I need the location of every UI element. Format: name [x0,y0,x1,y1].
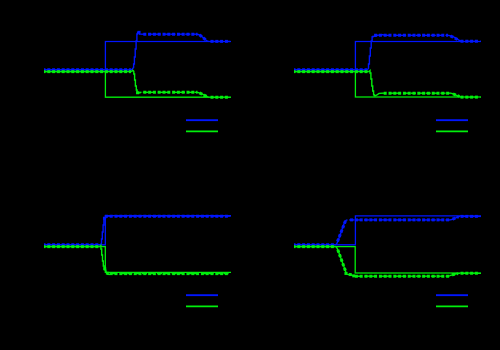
top-right dashed green response: transitions [369,71,382,96]
bottom-right dashed blue response: transitions [336,220,348,245]
bottom-left dashed green response: transitions [100,246,112,275]
top-left legend blue sample [186,119,218,121]
bottom-left legend blue sample [186,294,218,296]
bottom-right dashed blue markers [293,243,336,246]
bottom-left solid blue step line [44,216,231,245]
bottom-left dashed blue response: transitions [100,216,109,245]
top-left dashed green markers [43,70,132,73]
top-right legend blue sample [436,119,468,121]
top-right dashed blue response: transitions [367,35,384,70]
bottom-left dashed green response: flat dashes [44,246,100,248]
bottom-right dashed blue response: flat dashes [294,244,336,246]
bottom-right dashed green response: transitions [336,247,360,277]
bottom-right legend green sample [436,305,468,307]
top-left dashed blue markers [43,68,132,71]
top-left dashed blue response: flat dashes [44,69,132,71]
bottom-right solid green step line [294,247,481,273]
bottom-right dashed green response: flat dashes [294,246,336,248]
top-left dashed green response: flat dashes [44,71,132,73]
top-right solid green step line [294,72,481,97]
bottom-left dashed blue markers [43,243,101,246]
bottom-left legend green sample [186,305,218,307]
bottom-left dashed green markers [43,245,100,248]
top-right dashed green response: flat dashes [294,71,369,73]
top-left dashed blue response: transitions [132,32,141,70]
bottom-right dashed green markers [293,245,336,248]
top-right legend green sample [436,130,468,132]
bottom-right solid blue step line [294,216,481,245]
top-left legend green sample [186,130,218,132]
top-left solid blue step line [44,42,231,70]
bottom-right dashed green undershoot markers [344,272,347,275]
bottom-left solid green step line [44,247,231,273]
top-right dashed blue markers [293,68,368,71]
top-left dashed green response: transitions [132,70,142,93]
bottom-right legend blue sample [436,294,468,296]
top-right solid blue step line [294,42,481,70]
bottom-left dashed blue response: flat dashes [44,244,100,246]
top-right dashed blue response: flat dashes [294,69,367,71]
top-right dashed green markers [293,70,369,73]
top-left solid green step line [44,72,231,98]
